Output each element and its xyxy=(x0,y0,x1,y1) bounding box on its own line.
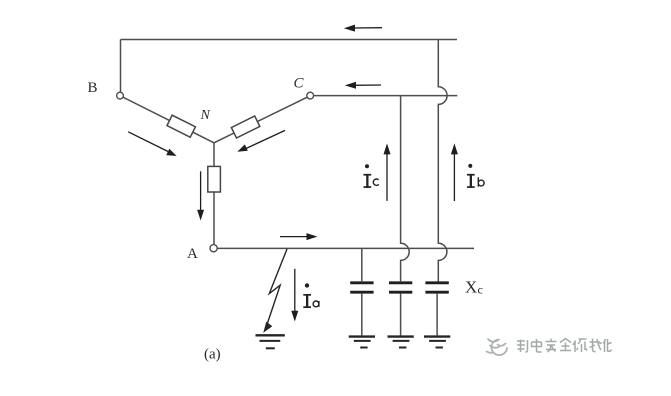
wire N to A xyxy=(213,143,215,245)
watermark text 鄂电安全你我他 (drawn strokes) xyxy=(517,339,612,353)
label Ib with dot xyxy=(467,164,484,188)
wire C1 lower stem xyxy=(361,294,363,336)
label Ia with dot xyxy=(303,283,319,308)
arrow on A bus (right) xyxy=(280,233,318,240)
watermark logo swirl xyxy=(487,339,508,355)
wire winding B-N xyxy=(123,97,214,143)
ground under lightning xyxy=(256,335,285,348)
wire Ic column from C bus to capacitor C2 with hop over A bus xyxy=(401,96,410,282)
lightning fault arrow at A xyxy=(266,249,287,328)
arrow on top bus (left) xyxy=(344,25,382,32)
transformer winding W1 (B phase) xyxy=(167,115,195,137)
capacitor C2 xyxy=(389,283,412,292)
transformer winding W3 (A phase, vertical) xyxy=(208,166,221,192)
svg-text:A: A xyxy=(187,246,198,262)
arrow beside winding W3 (down) xyxy=(197,171,204,220)
transformer winding W2 (C phase) xyxy=(231,116,259,138)
wire Ib column from top bus to capacitor C3 with hops over C bus and A bus xyxy=(438,40,447,283)
label Ic with dot xyxy=(364,164,379,188)
label Xc xyxy=(465,278,483,297)
ground under C2 xyxy=(388,337,414,348)
svg-text:N: N xyxy=(200,108,211,123)
capacitor C1 xyxy=(350,283,373,292)
arrow Ib (up) xyxy=(451,143,458,201)
svg-text:C: C xyxy=(294,76,305,92)
node B terminal circle xyxy=(117,92,124,99)
svg-text:c: c xyxy=(478,283,483,297)
wire A bus xyxy=(217,247,474,249)
arrow Ia (down) xyxy=(291,269,298,322)
svg-text:(a): (a) xyxy=(204,347,221,363)
wire capacitor C1 stem xyxy=(361,248,363,281)
node A terminal circle xyxy=(210,245,217,252)
wire winding C-N xyxy=(214,97,307,143)
ground under C1 xyxy=(349,337,375,348)
node C terminal circle xyxy=(307,92,314,99)
arrow on winding B-N (down-right) xyxy=(128,132,176,156)
arrow Ic (up) xyxy=(384,143,391,201)
svg-text:X: X xyxy=(465,278,477,297)
arrow on C bus (left) xyxy=(345,82,381,89)
capacitor C3 xyxy=(425,283,448,292)
wire top bus xyxy=(121,39,458,41)
wire C2 lower stem xyxy=(400,294,402,336)
arrow on winding C-N (down-left) xyxy=(237,130,285,151)
wire B riser xyxy=(120,40,122,93)
wire C bus xyxy=(313,95,457,97)
ground under C3 xyxy=(424,337,450,348)
wire C3 lower stem xyxy=(436,294,438,336)
svg-text:B: B xyxy=(88,80,98,96)
